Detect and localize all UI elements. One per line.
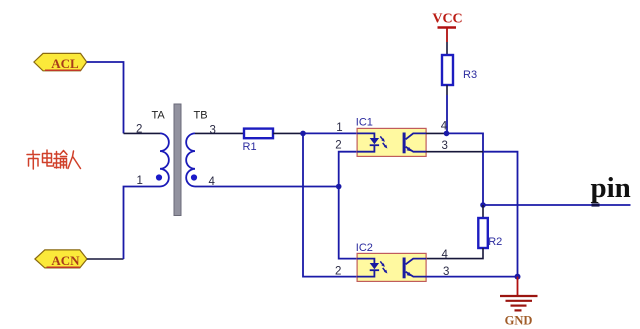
wire: [446, 95, 448, 133]
wire R3 to IC1 pin4: [446, 85, 448, 95]
ground GND: [500, 277, 538, 328]
svg-text:ACL: ACL: [51, 56, 79, 71]
svg-text:ACN: ACN: [51, 253, 80, 268]
node A junction: [300, 131, 306, 137]
wire node A to IC1 pin1: [303, 132, 357, 134]
svg-text:4: 4: [441, 120, 448, 132]
svg-text:TA: TA: [152, 110, 166, 122]
svg-text:3: 3: [210, 124, 216, 136]
wire TB pin4 to node B: [195, 186, 339, 188]
wire IC2 pin3 to GND node: [426, 276, 517, 278]
transformer core: [174, 104, 181, 216]
svg-text:R1: R1: [243, 141, 257, 153]
polarity dot TB: [191, 174, 197, 180]
wire R1 to node A: [273, 132, 303, 134]
optocoupler IC1: [357, 128, 426, 156]
polarity dot TA: [156, 174, 162, 180]
svg-text:4: 4: [442, 249, 449, 261]
wire IC1 pin2 to node B: [339, 152, 357, 187]
IC2 LED: [357, 259, 374, 263]
resistor R3: [442, 55, 453, 85]
IC2 light arrows: [380, 261, 383, 265]
svg-text:2: 2: [136, 124, 142, 136]
svg-text:1: 1: [137, 175, 143, 187]
node B junction: [336, 184, 342, 190]
wire junction to R2: [482, 205, 484, 218]
label 市电输入 (mains input, drawn strokes): [27, 150, 81, 169]
port ACL: [34, 53, 87, 71]
wire IC1 pin4 to R2 top: [447, 133, 484, 205]
svg-text:R3: R3: [463, 69, 477, 81]
svg-text:1: 1: [336, 122, 342, 134]
wire TB pin3 to R1: [195, 132, 244, 134]
wire end tick: [592, 203, 600, 206]
wire IC1 pin4 stub: [426, 132, 446, 134]
wire VCC to R3: [446, 42, 448, 55]
svg-text:GND: GND: [505, 314, 533, 328]
wire IC1 pin3 stub: [426, 151, 483, 153]
svg-text:VCC: VCC: [432, 12, 462, 27]
wire IC1 pin3 down to GND node: [483, 152, 518, 277]
IC1 LED: [357, 133, 374, 138]
junction pin net: [480, 202, 486, 208]
resistor R1: [244, 129, 273, 139]
svg-text:2: 2: [335, 140, 341, 152]
wire: [124, 187, 161, 260]
svg-text:2: 2: [335, 266, 341, 278]
port ACN: [35, 250, 87, 268]
wire TA pin2 stub: [124, 132, 161, 134]
wire pin net: [483, 204, 631, 206]
svg-text:IC2: IC2: [356, 242, 373, 254]
optocoupler IC2: [357, 253, 426, 281]
IC2 phototransistor: [403, 258, 406, 279]
IC1 light arrows: [380, 136, 383, 140]
wire ACL to TA pin2: [87, 62, 124, 133]
transformer TB winding: [186, 133, 195, 186]
wire node B to IC2 pin1: [339, 187, 357, 259]
junction R3/IC1 pin4: [444, 131, 450, 137]
wire R2 bottom to IC2 pin4: [426, 248, 483, 259]
svg-text:TB: TB: [194, 110, 208, 122]
GND junction: [515, 274, 521, 280]
power port VCC: [432, 12, 462, 43]
wire node A down to IC2 pin2: [303, 133, 357, 276]
svg-text:R2: R2: [488, 236, 502, 248]
resistor R2: [478, 218, 488, 248]
transformer TA winding: [160, 133, 169, 186]
svg-text:pin: pin: [591, 172, 631, 204]
IC1 phototransistor: [403, 133, 406, 154]
svg-text:IC1: IC1: [356, 117, 373, 129]
wire ACN to TA pin1: [87, 258, 124, 260]
svg-text:3: 3: [442, 140, 448, 152]
